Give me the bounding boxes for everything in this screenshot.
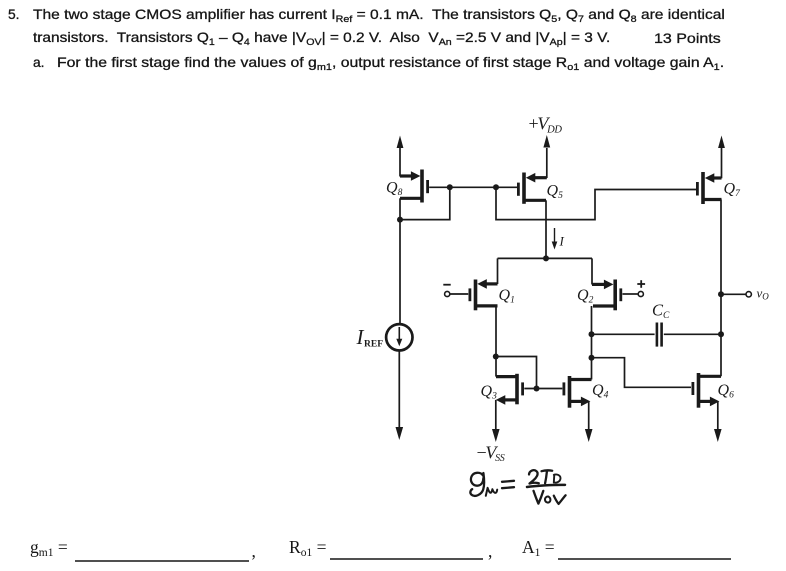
answer blank Ro1: [289, 537, 492, 561]
label Q7: [724, 181, 742, 200]
wire Q8 drain to IREF: [399, 198, 401, 324]
svg-text:,: ,: [252, 541, 256, 561]
svg-text:Q4: Q4: [592, 382, 609, 401]
input terminal plus: [623, 280, 646, 296]
label Q5: [547, 183, 564, 202]
svg-text:Q2: Q2: [577, 287, 594, 306]
svg-text:gm1 =: gm1 =: [30, 537, 68, 559]
transistor Q7: [697, 172, 721, 204]
label vo: [757, 286, 770, 302]
svg-text:CC: CC: [652, 301, 670, 322]
node Q8 drain junction: [397, 217, 403, 223]
transistor Q1: [470, 279, 498, 310]
label Q6: [718, 382, 735, 401]
svg-text:Q1: Q1: [499, 287, 515, 306]
label Q3: [481, 383, 498, 402]
node Q2 drain to Q6 gate junction: [589, 355, 595, 361]
svg-text:vO: vO: [757, 286, 770, 302]
label Q8: [386, 180, 403, 199]
current source IREF: [386, 324, 412, 350]
power VDD arrow at Q7 source: [718, 136, 725, 179]
wire bias node to Q7 gate: [496, 187, 696, 219]
svg-text:Q7: Q7: [724, 181, 742, 200]
capacitor Cc: [657, 323, 662, 347]
wire Q3-Q4 gate bus: [524, 388, 562, 390]
svg-text:Ro1 =: Ro1 =: [289, 537, 327, 559]
node tail junction: [543, 255, 549, 261]
label Q4: [592, 382, 609, 401]
wire Q5 drain to tail node: [545, 200, 547, 258]
node Q8 gate-drain junction: [447, 184, 453, 190]
wire output lead: [721, 293, 746, 295]
wire Q6 source to VSS: [714, 401, 722, 442]
transistor Q3: [496, 374, 523, 405]
answer blank gm1: [30, 537, 256, 561]
wire Cc right lead: [664, 333, 721, 335]
wire Q3 diode connection jog: [496, 357, 537, 389]
power -VSS label: [477, 443, 505, 465]
wire Cc left lead: [592, 333, 655, 335]
node Cc right junction: [718, 331, 724, 337]
wire IREF to VSS arrow: [396, 351, 404, 441]
transistor Q8: [400, 170, 428, 203]
power VDD arrow at Q8 source: [397, 136, 404, 177]
transistor Q5: [518, 173, 546, 204]
label I: [559, 234, 565, 249]
label IREF: [356, 325, 384, 350]
svg-text:+VDD: +VDD: [529, 114, 563, 136]
wire tail node to Q1 and Q2 sources: [498, 258, 593, 284]
svg-text:I: I: [559, 234, 565, 249]
power +VDD label: [529, 114, 563, 136]
node Q3-Q4 gate junction: [534, 386, 540, 392]
node Q1 drain junction: [493, 354, 499, 360]
node bias to Q7 junction: [493, 184, 499, 190]
power VDD arrow at Q5 source: [543, 135, 550, 178]
output terminal vo: [746, 292, 751, 297]
current arrow I annotation: [552, 228, 558, 250]
label Q1: [499, 287, 515, 306]
transistor Q4: [564, 376, 592, 408]
wire Q2 drain to Q6 gate: [592, 358, 692, 388]
wire Q8 gate to Q5 gate: [429, 186, 517, 188]
wire Q8 diode connection loop: [400, 187, 450, 219]
node output junction: [718, 291, 724, 297]
svg-text:IREF: IREF: [356, 325, 384, 350]
svg-text:−VSS: −VSS: [477, 443, 505, 465]
transistor Q2: [592, 280, 621, 311]
wire Q1 drain down: [495, 306, 497, 377]
svg-text:A1 =: A1 =: [522, 537, 555, 559]
svg-text:Q3: Q3: [481, 383, 498, 402]
formula gm equals 2ID over VOV: [470, 470, 565, 504]
node Cc left junction: [589, 331, 595, 337]
svg-text:,: ,: [488, 541, 492, 561]
label Cc: [652, 301, 670, 322]
svg-text:Q6: Q6: [718, 382, 735, 401]
input terminal minus: [443, 285, 468, 297]
transistor Q6: [693, 373, 721, 408]
wire Q2 drain down to Q4 drain: [591, 306, 593, 380]
answer blank A1: [522, 537, 731, 559]
label Q2: [577, 287, 594, 306]
wire Q7 drain to Q6 drain: [720, 200, 722, 377]
svg-text:Q5: Q5: [547, 183, 564, 202]
wire Q4 source to VSS: [585, 401, 593, 442]
wire Q3 source to VSS: [492, 400, 500, 442]
svg-text:Q8: Q8: [386, 180, 403, 199]
